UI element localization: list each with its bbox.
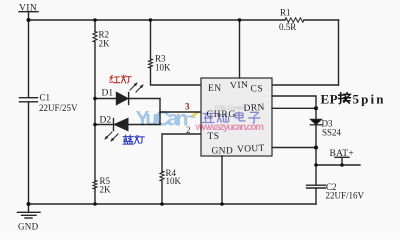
svg-text:BAT+: BAT+ bbox=[330, 149, 355, 159]
ground bbox=[18, 204, 41, 232]
wire CS bbox=[272, 84, 339, 86]
watermark bbox=[136, 106, 265, 134]
wire left rail bbox=[28, 20, 30, 204]
resistor R1 bbox=[285, 18, 304, 22]
svg-text:~: ~ bbox=[187, 109, 196, 126]
wire right rail bbox=[338, 20, 340, 85]
svg-text:C1: C1 bbox=[40, 93, 51, 103]
svg-text:GND: GND bbox=[212, 147, 233, 157]
svg-text:TS: TS bbox=[208, 132, 220, 142]
svg-text:2K: 2K bbox=[100, 185, 112, 195]
wire R2 branch bbox=[94, 20, 96, 204]
IC U1 charger bbox=[201, 78, 272, 156]
node BAT+ bbox=[330, 149, 355, 165]
svg-text:GND: GND bbox=[18, 222, 39, 232]
wire top rail bbox=[29, 19, 339, 21]
wire bottom rail bbox=[29, 203, 317, 205]
wire VIN pin bbox=[239, 20, 241, 78]
svg-text:0.5R: 0.5R bbox=[279, 22, 296, 32]
wire VOUT pin bbox=[272, 147, 316, 149]
svg-text:www.szyucan.com: www.szyucan.com bbox=[195, 122, 265, 133]
resistor R3 bbox=[149, 59, 153, 68]
svg-text:SS24: SS24 bbox=[322, 128, 342, 138]
svg-text:2K: 2K bbox=[99, 39, 111, 49]
label red light bbox=[110, 75, 131, 83]
diode D2 bbox=[95, 116, 160, 142]
svg-text:22UF/16V: 22UF/16V bbox=[326, 191, 365, 201]
svg-text:EN: EN bbox=[208, 84, 222, 94]
capacitor C2 bbox=[307, 165, 365, 204]
wire TS pin2 bbox=[162, 134, 201, 171]
svg-text:VIN: VIN bbox=[230, 80, 249, 91]
svg-text:10K: 10K bbox=[166, 176, 182, 186]
node VIN label bbox=[19, 4, 37, 14]
svg-text:CS: CS bbox=[251, 85, 264, 95]
svg-text:0755-27xxxxx: 0755-27xxxxx bbox=[215, 106, 245, 112]
wire VIN underline bbox=[19, 11, 38, 13]
diode D1 bbox=[95, 83, 160, 105]
IC U1 pin labels EN VIN CS CHRG DRN TS GND VOUT bbox=[207, 80, 266, 156]
svg-text:EP: EP bbox=[321, 92, 338, 107]
svg-text:D2: D2 bbox=[100, 116, 112, 126]
wire CHRG pin3 bbox=[160, 111, 201, 113]
resistor R4 bbox=[160, 171, 164, 181]
resistor R5 bbox=[93, 181, 97, 189]
svg-text:R1: R1 bbox=[280, 8, 291, 18]
svg-text:D1: D1 bbox=[102, 89, 114, 99]
svg-text:22UF/25V: 22UF/25V bbox=[39, 103, 78, 113]
wire GND pin bbox=[221, 156, 223, 204]
label blue light bbox=[123, 135, 144, 144]
capacitor C1 bbox=[20, 98, 38, 102]
diode D3 bbox=[310, 108, 341, 147]
svg-text:YuCan: YuCan bbox=[136, 107, 189, 130]
wire BAT bbox=[316, 148, 360, 166]
svg-text:VOUT: VOUT bbox=[237, 144, 265, 155]
wire R3 branch bbox=[151, 20, 202, 85]
label EP 5pin bbox=[321, 92, 385, 107]
wire DRN pins bbox=[272, 96, 316, 108]
resistor R2 bbox=[93, 32, 97, 43]
wire VIN stub bbox=[28, 12, 30, 20]
svg-text:10K: 10K bbox=[155, 63, 171, 73]
wire D1-D2 join bbox=[159, 99, 161, 125]
